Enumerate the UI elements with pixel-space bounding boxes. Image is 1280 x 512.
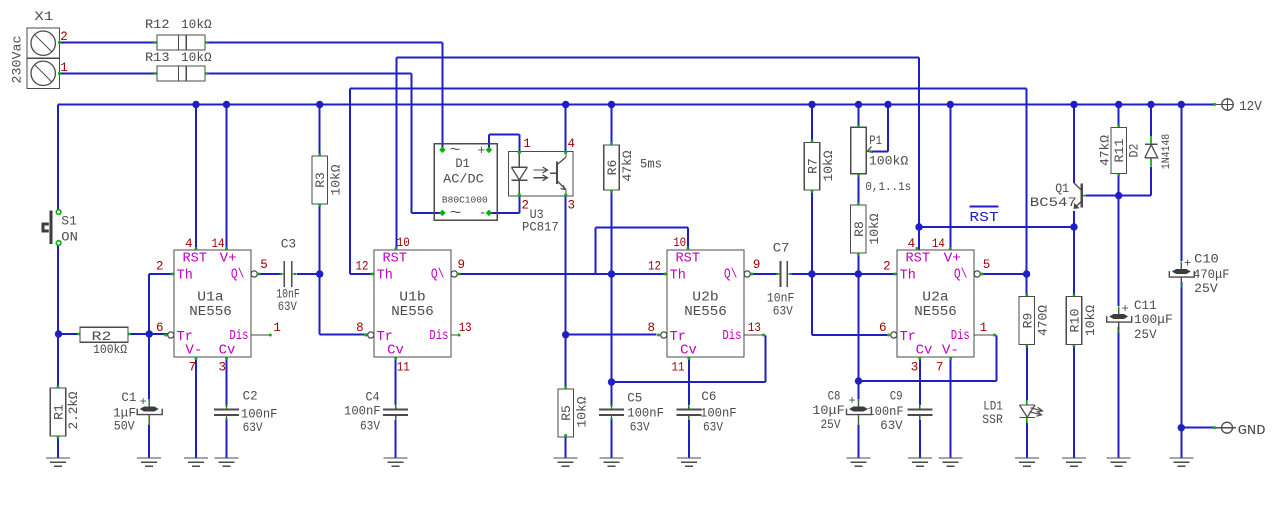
- value D1 B80C1000: [442, 195, 488, 206]
- wire U1b pin11 to C4: [395, 357, 397, 405]
- pin number X1.2: [60, 30, 68, 44]
- value R12 10k: [181, 17, 212, 32]
- svg-text:GND: GND: [1238, 424, 1266, 439]
- svg-text:+: +: [849, 394, 856, 408]
- label R8: [852, 221, 867, 237]
- capacitor C5: [599, 405, 624, 421]
- wire P1 to R8: [858, 174, 860, 205]
- svg-text:C8: C8: [828, 389, 841, 404]
- node rail R6: [608, 101, 615, 108]
- svg-text:2: 2: [883, 260, 891, 274]
- wire C4 to ground: [395, 420, 397, 458]
- wire U3 pin3 down: [565, 196, 567, 389]
- svg-text:230Vac: 230Vac: [10, 36, 25, 84]
- wire rail to Q1 collector: [1073, 105, 1075, 184]
- svg-text:Dis: Dis: [429, 329, 448, 344]
- wire U2b pin11 to C6: [688, 357, 690, 405]
- value LD1 SSR: [982, 412, 1003, 427]
- wire wiper link: [872, 105, 888, 152]
- value U1b NE556: [391, 305, 434, 320]
- svg-text:B80C1000: B80C1000: [442, 195, 488, 206]
- pin number U3 4: [568, 137, 576, 151]
- svg-text:R1: R1: [52, 404, 67, 420]
- svg-text:47kΩ: 47kΩ: [620, 150, 635, 181]
- pin name U1a Th: [177, 269, 193, 284]
- wire C8 to ground: [858, 425, 860, 458]
- pin name U2b RST: [676, 252, 701, 267]
- ground 2: [137, 458, 161, 466]
- wire U1b Q9 to U2b Th: [458, 273, 667, 275]
- label R7: [806, 158, 821, 174]
- pin name U2b Th: [670, 269, 686, 284]
- node rail P1 wiper: [884, 101, 891, 108]
- value C9: [867, 404, 903, 419]
- svg-text:100μF: 100μF: [1134, 312, 1173, 327]
- value C7: [767, 291, 795, 306]
- svg-text:V-: V-: [185, 344, 202, 359]
- wire C11 to ground: [1118, 327, 1120, 458]
- wire U1a Q5 to C3: [258, 273, 280, 275]
- value R9: [1036, 305, 1051, 336]
- op-amp U1b: [364, 247, 461, 360]
- svg-text:63V: 63V: [773, 304, 793, 319]
- svg-text:Q\: Q\: [231, 268, 245, 283]
- label Q1: [1055, 181, 1069, 196]
- svg-text:AC/DC: AC/DC: [443, 172, 484, 187]
- svg-text:12V: 12V: [1239, 100, 1263, 115]
- wire LD1 to ground: [1026, 423, 1028, 458]
- pin name U1b Th: [377, 269, 393, 284]
- wire Th link y88: [350, 88, 1027, 90]
- wire U2b RST link: [596, 228, 689, 275]
- value U3 PC817: [522, 220, 559, 235]
- label C9: [890, 389, 903, 404]
- wire 12V rail: [58, 104, 1213, 106]
- wire C1 drop: [148, 334, 150, 399]
- node R3-C3 junction: [316, 270, 323, 277]
- capacitor C10: [1169, 262, 1194, 288]
- svg-text:C6: C6: [701, 389, 716, 404]
- svg-text:R12: R12: [145, 17, 170, 32]
- value R1 2.2k: [66, 391, 81, 429]
- svg-text:63V: 63V: [360, 419, 380, 434]
- wire drop to U1b Th: [350, 89, 374, 275]
- wire base node to D2: [1150, 167, 1152, 196]
- svg-text:NE556: NE556: [914, 305, 957, 320]
- voltage C1: [114, 419, 135, 434]
- wire Dis13 line: [612, 336, 766, 383]
- svg-text:U1b: U1b: [399, 291, 425, 306]
- voltage C8: [821, 417, 841, 432]
- wire R8 down: [857, 253, 859, 274]
- label R10: [1068, 309, 1083, 333]
- label 12V: [1239, 100, 1263, 115]
- pin name U1a V-: [185, 344, 202, 359]
- wire rail to P1: [858, 105, 860, 128]
- voltage C4: [360, 419, 380, 434]
- label C2: [243, 389, 258, 404]
- svg-text:RST: RST: [906, 252, 931, 267]
- svg-text:X1: X1: [34, 9, 53, 24]
- wire C10 down to ground: [1180, 282, 1182, 458]
- mark D1 ac bottom: [450, 206, 462, 222]
- pin name U1a RST: [183, 252, 208, 267]
- svg-text:R7: R7: [806, 158, 821, 174]
- svg-text:U1a: U1a: [197, 291, 223, 306]
- pin number U2b 8: [647, 321, 655, 335]
- pin number U2b 11: [672, 361, 685, 375]
- label 230Vac: [10, 36, 25, 84]
- label GND: [1238, 424, 1266, 439]
- svg-text:12: 12: [356, 260, 369, 274]
- svg-text:12: 12: [648, 260, 661, 274]
- svg-text:63V: 63V: [278, 299, 297, 314]
- svg-text:C10: C10: [1194, 252, 1219, 267]
- svg-text:63V: 63V: [703, 420, 723, 435]
- wire rail to R3: [319, 105, 321, 157]
- svg-text:C3: C3: [281, 237, 297, 252]
- node rail D2: [1147, 101, 1154, 108]
- voltage C6: [703, 420, 723, 435]
- label C4: [366, 390, 380, 405]
- svg-text:25V: 25V: [1134, 327, 1157, 342]
- label D1: [455, 156, 470, 171]
- svg-text:1: 1: [523, 137, 531, 151]
- net label RST: [969, 206, 998, 225]
- label U2b: [692, 291, 718, 306]
- ground 4: [215, 458, 239, 466]
- pin number U1b 12: [356, 260, 369, 274]
- svg-text:1N4148: 1N4148: [1161, 134, 1173, 169]
- svg-text:8: 8: [647, 321, 655, 335]
- label U1a: [197, 291, 223, 306]
- optocoupler U3: [509, 151, 574, 197]
- capacitor C1: [137, 399, 162, 425]
- node R7-Th junction: [808, 270, 815, 277]
- label P1: [869, 133, 882, 148]
- svg-text:V-: V-: [942, 344, 959, 359]
- pin number U2a 3: [911, 361, 919, 375]
- voltage C10: [1194, 281, 1218, 296]
- label U1b: [399, 291, 425, 306]
- svg-text:14: 14: [932, 237, 945, 251]
- wire C9 to ground: [919, 420, 921, 458]
- pin name U2a Tr: [900, 330, 916, 345]
- svg-text:+: +: [140, 395, 147, 409]
- svg-text:4: 4: [908, 237, 916, 251]
- pin name U2a RST: [906, 252, 931, 267]
- label R3: [313, 172, 328, 188]
- svg-text:Cv: Cv: [387, 344, 404, 359]
- ground 12: [1015, 458, 1039, 466]
- capacitor C8: [847, 399, 872, 425]
- pin number U2a 6: [879, 321, 887, 335]
- node rail U2a.14: [947, 101, 954, 108]
- resistor R8: [851, 202, 867, 256]
- resistor R12: [154, 35, 209, 50]
- label U3: [530, 207, 544, 222]
- capacitor C9: [907, 405, 932, 421]
- plus C1: [140, 395, 147, 409]
- pin name U1a Cv: [219, 344, 236, 359]
- svg-text:-: -: [479, 206, 487, 221]
- pin number U3 2: [522, 199, 530, 213]
- ground 1: [46, 458, 70, 466]
- wire U2a pin7 to ground: [950, 357, 952, 458]
- connector X1: [27, 28, 61, 89]
- wire U2a pin14: [949, 105, 951, 251]
- label C8: [828, 389, 841, 404]
- mark D1 minus: [479, 206, 487, 221]
- pin number U2a 7: [936, 361, 944, 375]
- svg-text:PC817: PC817: [522, 220, 559, 235]
- label R11: [1112, 138, 1127, 162]
- wire C3 to node: [297, 273, 320, 275]
- svg-text:Dis: Dis: [951, 329, 970, 344]
- rectifier D1: [434, 144, 497, 221]
- label R9: [1020, 313, 1035, 329]
- op-amp U2b: [657, 247, 766, 360]
- svg-text:100kΩ: 100kΩ: [869, 154, 909, 169]
- voltage C2: [243, 420, 263, 435]
- pin name U1b Q: [431, 268, 445, 283]
- node rail R7: [808, 101, 815, 108]
- diode D2: [1145, 136, 1158, 167]
- label D2: [1127, 144, 1142, 158]
- op-amp U1a: [164, 247, 272, 360]
- node R6-Th junction: [608, 270, 615, 277]
- svg-text:6: 6: [156, 321, 164, 335]
- ground 9: [847, 458, 871, 466]
- node R8-Th junction: [855, 270, 862, 277]
- label C7: [773, 241, 790, 256]
- capacitor C11: [1107, 307, 1132, 333]
- svg-text:P1: P1: [869, 133, 882, 148]
- pin number U3 1: [523, 137, 531, 151]
- pin number U2a 1: [980, 321, 988, 335]
- svg-text:Cv: Cv: [680, 344, 697, 359]
- svg-text:5: 5: [260, 258, 268, 272]
- svg-text:Q\: Q\: [431, 268, 445, 283]
- wire rail to R7: [811, 105, 813, 143]
- label X1: [34, 9, 53, 24]
- plus C8: [849, 394, 856, 408]
- value C10: [1193, 267, 1230, 282]
- note P1 time: [865, 181, 911, 194]
- svg-text:1: 1: [60, 61, 68, 75]
- label C6: [701, 389, 716, 404]
- mark D1 plus: [478, 143, 486, 158]
- svg-text:Q\: Q\: [724, 268, 738, 283]
- node R11-base junction: [1115, 192, 1122, 199]
- wire RST horizontal: [919, 226, 1074, 228]
- svg-text:ON: ON: [61, 230, 78, 245]
- svg-text:100nF: 100nF: [700, 406, 737, 421]
- svg-text:Q\: Q\: [954, 268, 968, 283]
- svg-text:RST: RST: [676, 252, 701, 267]
- resistor R3: [312, 153, 328, 207]
- ground 10: [908, 458, 932, 466]
- wire R8 node to C8: [857, 274, 859, 381]
- wire U2a Q5 to node: [981, 273, 1027, 275]
- resistor R11: [1111, 125, 1127, 177]
- switch S1: [43, 210, 61, 246]
- svg-text:4: 4: [185, 237, 193, 251]
- capacitor C4: [383, 405, 408, 421]
- svg-text:D2: D2: [1127, 144, 1142, 158]
- mark D1 ac top: [450, 143, 461, 159]
- node rail U1a.14: [223, 101, 230, 108]
- value U2b NE556: [684, 305, 727, 320]
- svg-text:25V: 25V: [821, 417, 841, 432]
- pin name U1b Cv: [387, 344, 404, 359]
- svg-text:U2b: U2b: [692, 291, 718, 306]
- node R6-C5-Dis junction: [608, 378, 615, 385]
- svg-text:25V: 25V: [1194, 281, 1218, 296]
- label C1: [121, 390, 136, 405]
- wire R1 to ground: [57, 436, 59, 458]
- wire C5 to ground: [611, 420, 613, 458]
- wire U1a Th loop: [149, 274, 174, 334]
- wire C2 to ground: [226, 420, 228, 458]
- svg-text:C4: C4: [366, 390, 380, 405]
- svg-text:50V: 50V: [114, 419, 135, 434]
- label S1: [61, 214, 77, 229]
- wire D1+ to U3 pin1: [489, 135, 520, 153]
- wire C1 to ground: [148, 425, 150, 458]
- pin number U2a 4: [908, 237, 916, 251]
- svg-text:9: 9: [458, 258, 466, 272]
- pin name U1a V+: [220, 252, 237, 267]
- wire U1a pin4: [195, 105, 197, 251]
- value R3: [329, 164, 344, 195]
- wire X1.1 to R13: [60, 73, 157, 75]
- wire R5 to ground: [565, 434, 567, 458]
- label LD1: [983, 399, 1003, 414]
- capacitor C3: [280, 261, 297, 287]
- wire base node to C11: [1118, 196, 1120, 306]
- svg-text:0,1..1s: 0,1..1s: [865, 181, 911, 194]
- svg-text:V+: V+: [220, 252, 237, 267]
- svg-text:10: 10: [673, 236, 686, 250]
- svg-text:V+: V+: [944, 252, 961, 267]
- svg-text:NE556: NE556: [684, 305, 727, 320]
- svg-text:9: 9: [753, 258, 761, 272]
- svg-text:Dis: Dis: [229, 329, 248, 344]
- svg-text:5ms: 5ms: [640, 157, 662, 172]
- wire rail to R6: [611, 105, 613, 146]
- pin number U1a 7: [189, 361, 197, 375]
- svg-text:5: 5: [983, 258, 991, 272]
- svg-text:11: 11: [672, 361, 685, 375]
- resistor R5: [558, 386, 574, 437]
- ground 13: [1062, 458, 1086, 466]
- wire rail to C10: [1180, 105, 1182, 262]
- node Th-R2-C1 junction: [146, 330, 153, 337]
- node RST-Q1 junction: [1070, 223, 1077, 230]
- ground 8: [677, 458, 701, 466]
- pin name U2a V-: [942, 344, 959, 359]
- wire rail to D2: [1150, 105, 1152, 137]
- wire D1- to U3 pin2: [489, 196, 520, 213]
- wire drop to R9/U2a Q: [1026, 89, 1028, 297]
- svg-text:SSR: SSR: [982, 412, 1003, 427]
- value R7: [821, 150, 836, 181]
- svg-text:D1: D1: [455, 156, 470, 171]
- wire X1.2 to R12: [60, 42, 157, 44]
- svg-text:C7: C7: [773, 241, 790, 256]
- svg-text:10μF: 10μF: [812, 403, 844, 418]
- voltage C9: [880, 418, 902, 433]
- ground 5: [384, 458, 408, 466]
- wire U1a pin14: [226, 105, 228, 251]
- svg-text:Th: Th: [670, 269, 686, 284]
- value D2 1N4148: [1161, 134, 1173, 169]
- svg-text:63V: 63V: [243, 420, 263, 435]
- svg-text:BC547: BC547: [1030, 195, 1077, 210]
- pin number U1a 3: [218, 361, 226, 375]
- pin number U1b 13: [459, 321, 472, 335]
- resistor R13: [154, 66, 209, 81]
- wire rail to R11: [1118, 105, 1120, 128]
- note 5ms: [640, 157, 662, 172]
- value R2 100k: [93, 342, 127, 357]
- pin number U1a 4: [185, 237, 193, 251]
- transistor Q1: [1074, 183, 1086, 209]
- pin name U1a Q: [231, 268, 245, 283]
- value C1: [113, 406, 136, 421]
- svg-text:Dis: Dis: [722, 329, 741, 344]
- wire to U2b Tr: [566, 334, 657, 336]
- pin name U2b Cv: [680, 344, 697, 359]
- wire U1a pin3 to C2: [226, 357, 228, 405]
- svg-text:100nF: 100nF: [344, 404, 381, 419]
- value R6: [620, 150, 635, 181]
- pin name U1a Dis: [229, 329, 248, 344]
- svg-text:C11: C11: [1134, 298, 1157, 313]
- pin name U2a Q: [954, 268, 968, 283]
- node rail Q1: [1070, 101, 1077, 108]
- value C3: [276, 287, 300, 302]
- pin number U1a 6: [156, 321, 164, 335]
- node U3.3 branch: [562, 331, 569, 338]
- svg-text:100nF: 100nF: [867, 404, 903, 419]
- ground 14: [1107, 458, 1131, 466]
- svg-text:R11: R11: [1112, 138, 1127, 162]
- pin number U2a 14: [932, 237, 945, 251]
- pin number U1b 10: [397, 236, 410, 250]
- op-amp U2a: [887, 247, 996, 360]
- wire C8 drop: [858, 381, 860, 399]
- pin number U1a 2: [156, 260, 164, 274]
- svg-text:Th: Th: [900, 269, 916, 284]
- pin number U3 3: [568, 199, 576, 213]
- pin name U2a Th: [900, 269, 916, 284]
- label R12: [145, 17, 170, 32]
- svg-text:Q1: Q1: [1055, 181, 1069, 196]
- node rail U1a.4: [192, 101, 199, 108]
- pin name U2a Cv: [916, 344, 933, 359]
- wire U2b Q9 to C7: [751, 273, 778, 275]
- ground 15: [1169, 458, 1193, 466]
- svg-text:Cv: Cv: [916, 344, 933, 359]
- node rail U3.4: [562, 101, 569, 108]
- pin number U1a 14: [212, 237, 225, 251]
- label R6: [605, 160, 620, 176]
- wire Q1 emitter down to R10: [1073, 211, 1075, 297]
- label R13: [145, 50, 170, 65]
- label ON: [61, 230, 78, 245]
